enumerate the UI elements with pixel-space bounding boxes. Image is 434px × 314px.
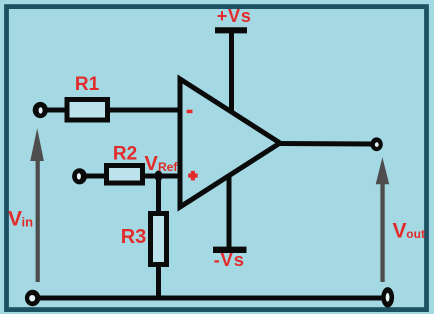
svg-text:V: V bbox=[145, 153, 159, 175]
op-amp U1 bbox=[180, 79, 280, 207]
resistor R3 bbox=[151, 214, 167, 265]
svg-text:out: out bbox=[406, 227, 425, 241]
svg-text:+Vs: +Vs bbox=[217, 6, 252, 26]
wire node to bottom rail through R3 bbox=[156, 176, 161, 298]
resistor R1 bbox=[67, 100, 108, 121]
node VRef junction dot bbox=[155, 171, 163, 182]
positive supply +Vs bar bbox=[215, 27, 247, 33]
svg-text:R2: R2 bbox=[113, 144, 137, 165]
svg-text:R1: R1 bbox=[75, 74, 100, 95]
terminal output bbox=[370, 137, 382, 151]
op-amp inverting input minus mark bbox=[187, 110, 193, 114]
Vin arrow bbox=[30, 128, 44, 282]
wire -Vs from op-amp bottom bbox=[227, 172, 232, 248]
wire +Vs to op-amp top bbox=[229, 31, 234, 114]
negative supply -Vs bar bbox=[213, 247, 247, 253]
svg-text:R3: R3 bbox=[121, 226, 147, 248]
wire R2 input to op-amp non-inverting input bbox=[81, 174, 180, 179]
terminal input R1 bbox=[33, 102, 48, 118]
terminal input R2 bbox=[72, 168, 87, 184]
op-amp non-inverting input plus mark bbox=[188, 171, 198, 181]
svg-text:in: in bbox=[22, 214, 34, 229]
wire op-amp output bbox=[280, 141, 372, 147]
Vout arrow bbox=[376, 157, 390, 282]
wire bottom rail bbox=[32, 296, 388, 301]
terminal bottom right bbox=[381, 287, 394, 307]
svg-text:V: V bbox=[8, 207, 22, 230]
wire R1 input to op-amp inverting input bbox=[42, 108, 180, 113]
svg-text:Ref: Ref bbox=[158, 160, 178, 174]
svg-text:-Vs: -Vs bbox=[214, 249, 245, 270]
resistor R2 bbox=[107, 166, 143, 184]
terminal bottom left bbox=[25, 290, 40, 306]
svg-text:V: V bbox=[393, 219, 407, 242]
